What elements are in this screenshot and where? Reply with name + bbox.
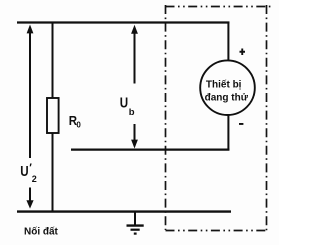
minus polarity label — [239, 123, 243, 125]
wire resistor branch upper — [52, 22, 54, 99]
test-area boundary dash-dot box bottom — [166, 230, 268, 232]
voltage arrow Ub upper segment with up arrowhead — [131, 25, 138, 84]
voltage arrow U'2 lower segment with down arrowhead — [26, 188, 33, 209]
device under test circle U1 — [200, 60, 255, 115]
ground symbol — [127, 212, 144, 234]
svg-text:U: U — [120, 95, 128, 112]
test-area boundary dash-dot box top — [166, 6, 272, 8]
wire bottom earth rail — [17, 210, 231, 212]
svg-text:2: 2 — [32, 174, 37, 184]
svg-text:0: 0 — [76, 120, 81, 129]
svg-text:b: b — [129, 107, 135, 118]
svg-text:U: U — [20, 163, 28, 180]
voltage arrow U'2 upper segment with up arrowhead — [27, 25, 34, 159]
wire top supply rail — [17, 21, 229, 23]
svg-text:Thiết bị: Thiết bị — [206, 78, 242, 90]
wire resistor branch lower — [52, 133, 54, 212]
wire device top lead — [227, 22, 229, 61]
test-area boundary dash-dot box right — [266, 5, 268, 232]
wire middle return — [71, 149, 229, 151]
svg-text:Nối đất: Nối đất — [24, 225, 59, 237]
svg-text:′: ′ — [29, 162, 32, 174]
resistor R0 — [47, 98, 59, 133]
voltage arrow Ub lower segment with down arrowhead — [131, 124, 138, 149]
test-area boundary dash-dot box left — [165, 5, 167, 230]
plus polarity label — [240, 49, 246, 56]
svg-text:đang thử: đang thử — [205, 92, 249, 103]
wire device bottom lead — [227, 115, 229, 151]
